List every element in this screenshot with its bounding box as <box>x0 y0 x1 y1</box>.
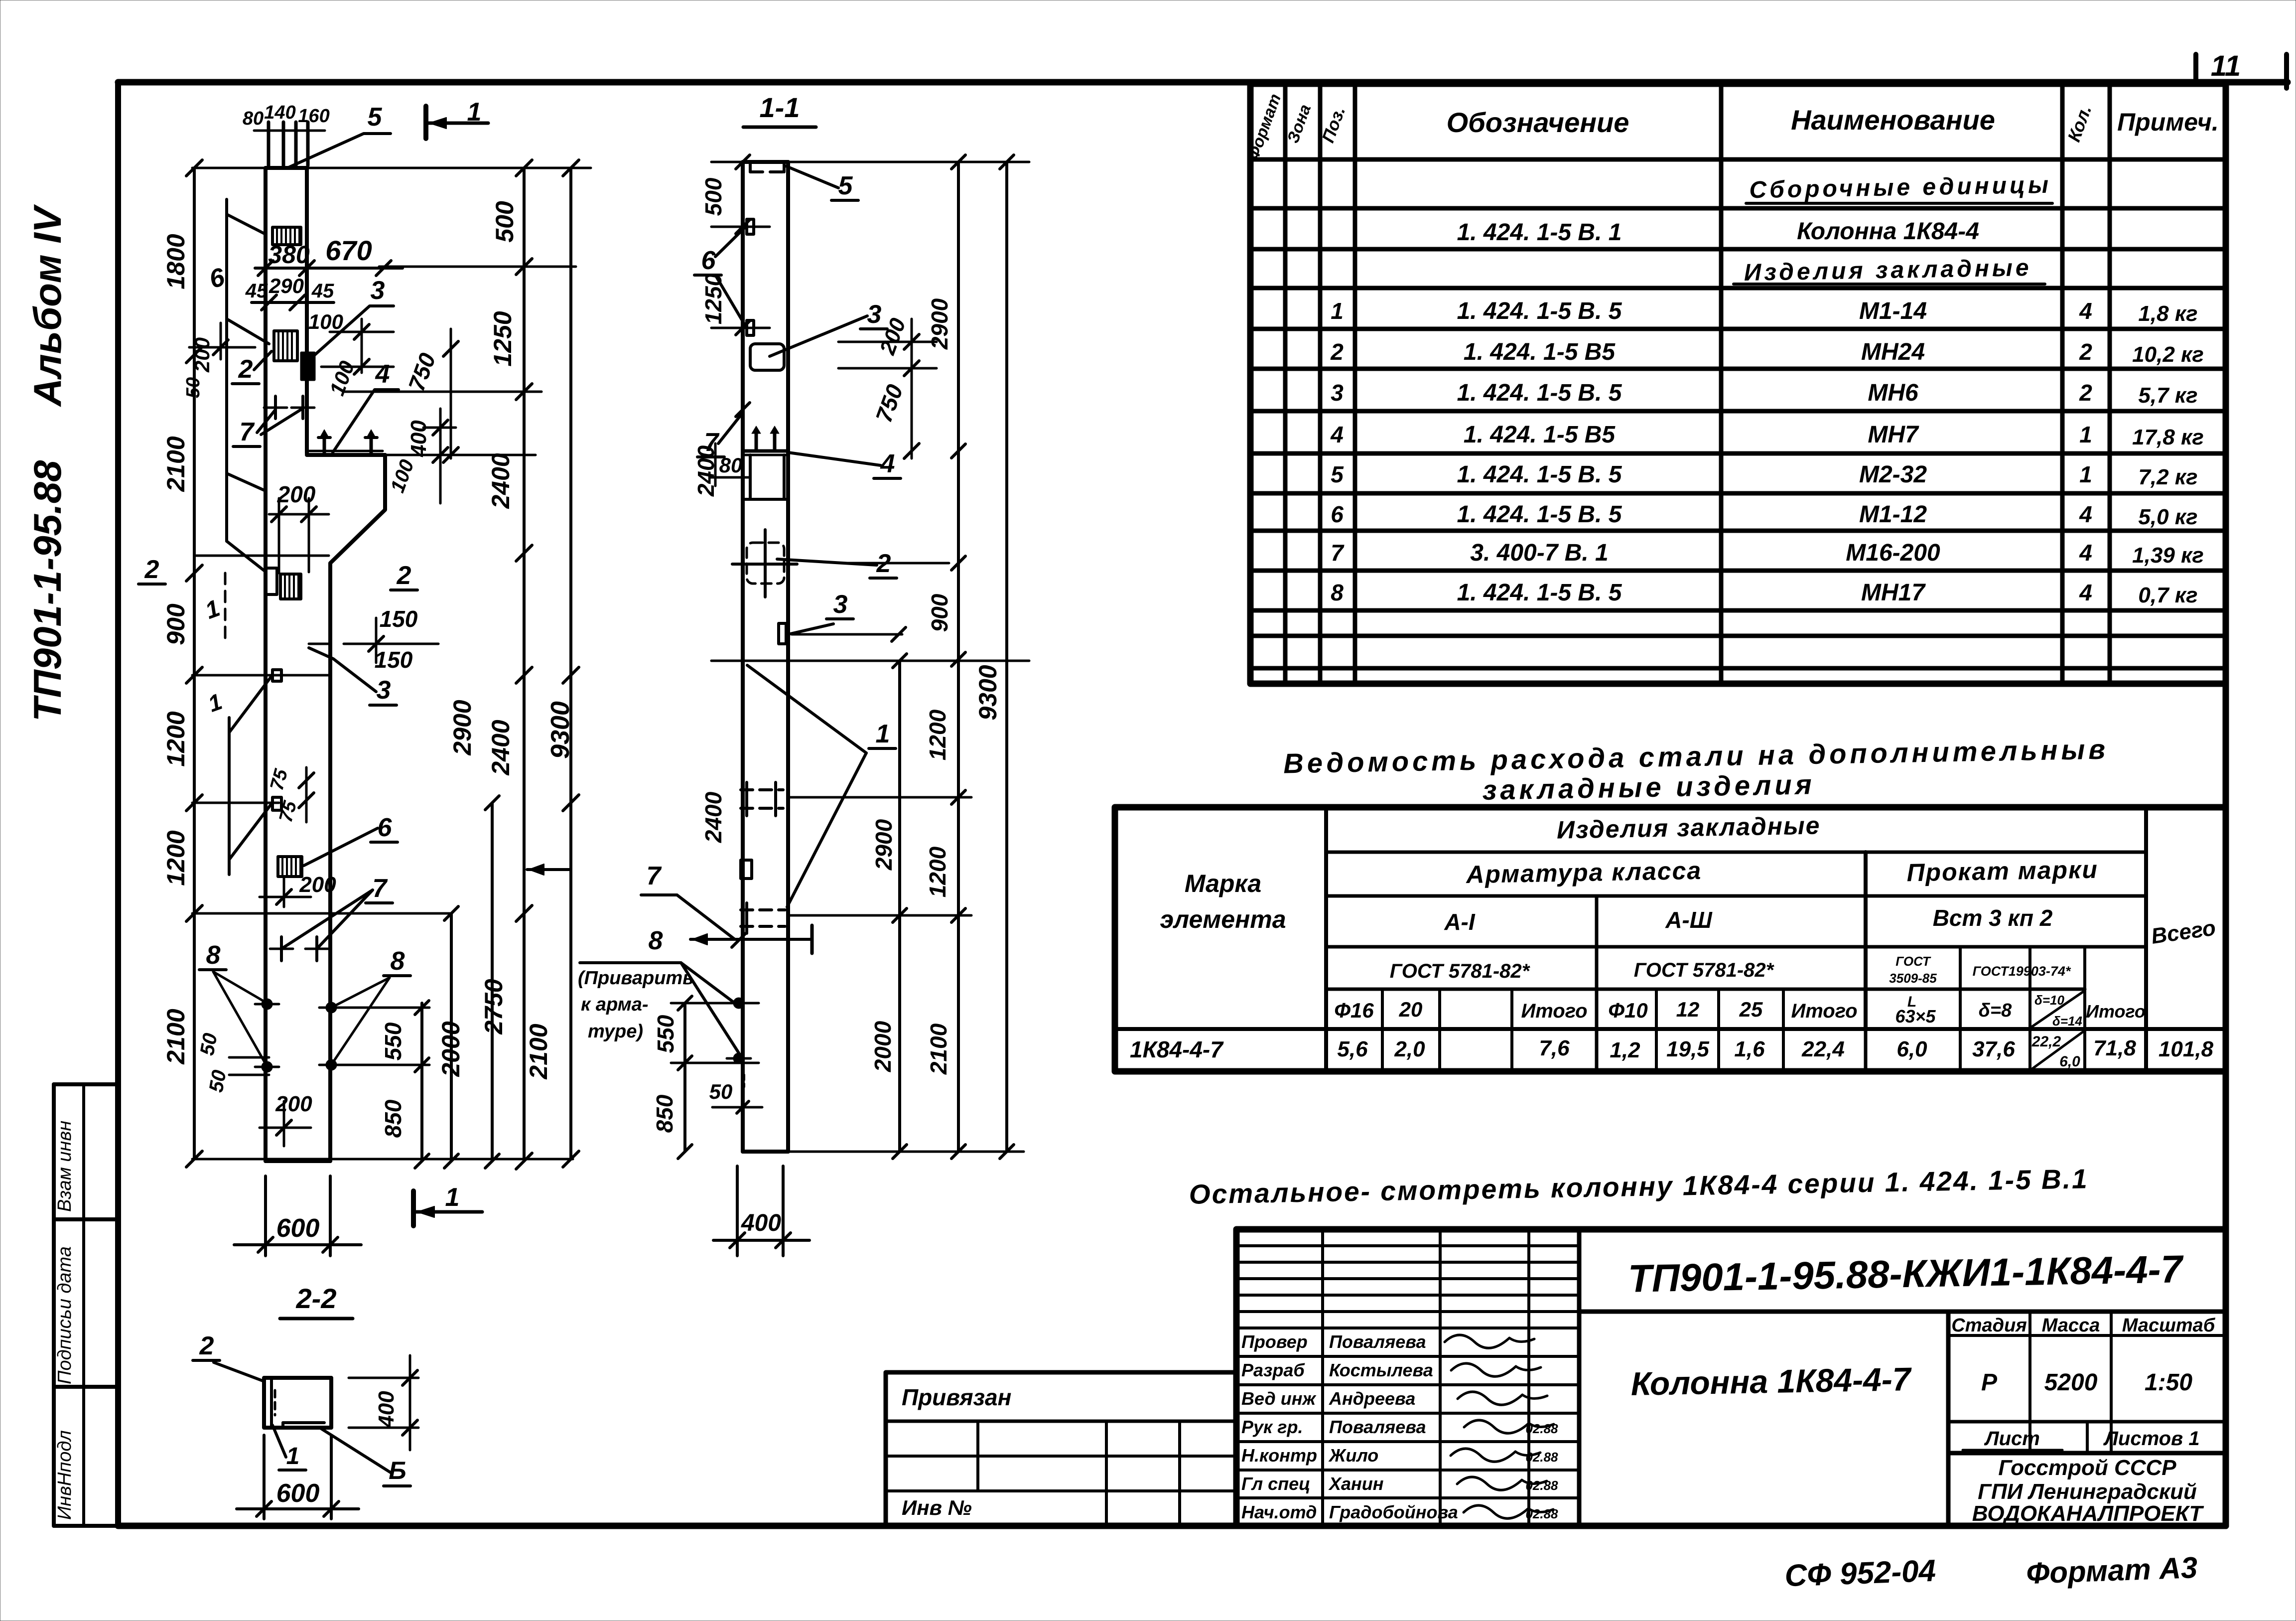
svg-text:Инв №: Инв № <box>902 1496 972 1519</box>
svg-text:Колонна 1К84-4-7: Колонна 1К84-4-7 <box>1630 1360 1912 1402</box>
view B column outline <box>743 162 788 1152</box>
svg-text:500: 500 <box>491 201 519 243</box>
svg-text:1800: 1800 <box>162 234 190 289</box>
title block stage mass scale <box>1951 1315 2216 1396</box>
attachment box <box>886 1372 1236 1525</box>
label 3 with leader view A <box>310 276 394 359</box>
dimension 50 50 rotated view A <box>196 1032 269 1094</box>
specification table row embedded items <box>1734 255 2045 286</box>
specification table row pos 1 М1-14 <box>1331 298 2197 326</box>
svg-text:А-I: А-I <box>1444 909 1476 935</box>
svg-text:Гл спец: Гл спец <box>1241 1474 1310 1494</box>
dimension 200 50 left <box>183 323 255 398</box>
svg-text:1К84-4-7: 1К84-4-7 <box>1130 1036 1224 1062</box>
svg-text:3: 3 <box>867 300 882 329</box>
svg-text:Вед инж: Вед инж <box>1241 1388 1317 1409</box>
dimension 200 below plate 6 <box>260 873 336 907</box>
svg-text:80: 80 <box>719 453 743 477</box>
svg-text:850: 850 <box>652 1094 677 1133</box>
small arrow mark on chain <box>527 864 571 875</box>
svg-text:М2-32: М2-32 <box>1859 461 1927 488</box>
view B cross embed pos2 <box>732 530 797 597</box>
title block name text <box>1630 1360 1912 1402</box>
format A3 bottom <box>2026 1551 2198 1590</box>
label 6 view A upper <box>206 263 228 295</box>
svg-text:7: 7 <box>240 418 255 446</box>
view B chain ticks left 500 1250 <box>711 155 770 335</box>
svg-text:900: 900 <box>927 593 952 632</box>
svg-text:Арматура класса: Арматура класса <box>1465 857 1702 888</box>
right dimension chain R1 view A <box>516 160 532 1169</box>
svg-text:δ=14: δ=14 <box>2052 1014 2083 1029</box>
svg-text:1,6: 1,6 <box>1734 1037 1765 1061</box>
svg-text:45: 45 <box>311 280 334 302</box>
svg-text:50: 50 <box>196 1032 222 1057</box>
svg-text:3: 3 <box>833 590 848 619</box>
svg-text:50: 50 <box>709 1080 733 1103</box>
svg-text:1200: 1200 <box>925 709 950 760</box>
svg-text:1. 424. 1-5 В. 1: 1. 424. 1-5 В. 1 <box>1457 219 1622 246</box>
title block signatures squiggles <box>1445 1335 1558 1521</box>
dimension 380 670 <box>255 235 403 276</box>
view B right chain labels <box>870 298 1002 1075</box>
svg-text:7,2 кг: 7,2 кг <box>2138 465 2197 489</box>
svg-text:Марка: Марка <box>1185 870 1261 897</box>
svg-text:100: 100 <box>308 310 343 333</box>
svg-text:7: 7 <box>647 862 662 890</box>
svg-text:12: 12 <box>1676 998 1700 1021</box>
dimension 150 150 view A <box>309 606 438 673</box>
svg-text:7: 7 <box>373 874 388 903</box>
label 2 view A <box>232 351 271 384</box>
specification table row pos 6 М1-12 <box>1331 501 2197 529</box>
sub chain 550 850 view A <box>380 796 499 1168</box>
view A embed plate pos5 top <box>272 227 301 245</box>
view B level line 2-2 <box>842 562 949 565</box>
svg-text:1:50: 1:50 <box>2145 1369 2192 1396</box>
dimension 600 below view A <box>234 1176 361 1256</box>
svg-text:3: 3 <box>1331 380 1344 406</box>
svg-text:2400: 2400 <box>700 791 726 843</box>
title block organization <box>1972 1456 2204 1526</box>
specification table row pos 4 МН7 <box>1330 422 2204 449</box>
view A small plates left edge <box>272 670 281 810</box>
svg-text:1: 1 <box>876 720 890 748</box>
svg-text:400: 400 <box>741 1210 781 1236</box>
note weld to reinforcement <box>578 968 694 1042</box>
svg-text:2: 2 <box>2079 380 2092 406</box>
label 5 with leader view A <box>287 103 391 168</box>
specification table row pos 2 МН24 <box>1330 339 2204 367</box>
svg-text:ВОДОКАНАЛПРОЕКТ: ВОДОКАНАЛПРОЕКТ <box>1972 1501 2204 1526</box>
dimension 200 750 view B <box>838 315 937 458</box>
view B top embed dashed <box>750 162 784 172</box>
svg-text:Колонна 1К84-4: Колонна 1К84-4 <box>1797 218 1979 245</box>
steel table grid <box>1115 807 2226 1071</box>
steel table data row <box>1130 1031 2214 1070</box>
svg-text:Провер: Провер <box>1241 1331 1308 1352</box>
steel table header texts <box>1160 811 2217 986</box>
svg-text:7: 7 <box>1331 540 1345 566</box>
svg-text:элемента: элемента <box>1160 905 1286 933</box>
view A column outline <box>266 168 385 1161</box>
svg-text:5,6: 5,6 <box>1337 1037 1368 1061</box>
attachment box texts <box>902 1384 1011 1519</box>
view B level lines right <box>711 162 1029 1152</box>
svg-text:ТП901-1-95.88 Альбом IV: ТП901-1-95.88 Альбом IV <box>25 204 69 722</box>
view B dashed embed plates lower <box>741 782 785 933</box>
label 7 with leaders view A lower <box>270 874 393 961</box>
svg-text:0,7 кг: 0,7 кг <box>2138 583 2197 607</box>
svg-text:3: 3 <box>377 676 391 705</box>
svg-text:19,5: 19,5 <box>1666 1037 1709 1061</box>
view B console bolts <box>743 426 788 455</box>
left stamp boxes <box>54 1084 118 1526</box>
svg-text:80: 80 <box>243 108 264 129</box>
svg-text:1: 1 <box>286 1443 300 1470</box>
svg-text:6,0: 6,0 <box>1896 1037 1927 1061</box>
svg-text:Изделия закладные: Изделия закладные <box>1744 255 2032 286</box>
label 7 with leader view B lower <box>641 862 746 947</box>
steel table title line 1 <box>1283 734 2109 779</box>
svg-text:2100: 2100 <box>162 1009 190 1064</box>
svg-text:4: 4 <box>2079 501 2092 527</box>
svg-text:2900: 2900 <box>927 298 952 350</box>
label 2 with leader view B <box>777 549 897 578</box>
specification table grid <box>1250 84 2226 684</box>
svg-text:ГОСТ 5781-82*: ГОСТ 5781-82* <box>1390 960 1531 982</box>
svg-text:850: 850 <box>380 1099 406 1138</box>
svg-text:11: 11 <box>2211 50 2241 82</box>
svg-text:Изделия закладные: Изделия закладные <box>1556 811 1820 844</box>
label 6 with leader section 2-2 <box>319 1427 410 1486</box>
specification table row pos 3 МН6 <box>1331 380 2197 408</box>
leader line for plates 6 and 2 <box>227 199 269 572</box>
svg-text:2100: 2100 <box>926 1023 951 1075</box>
svg-text:5200: 5200 <box>2044 1369 2098 1396</box>
svg-text:2: 2 <box>397 561 411 590</box>
svg-text:ГОСТ19903-74*: ГОСТ19903-74* <box>1973 964 2071 979</box>
svg-text:(Приварить: (Приварить <box>578 968 694 989</box>
svg-text:150: 150 <box>375 647 413 673</box>
label 1 with leaders view B <box>747 665 896 907</box>
dimension 400 below view B <box>713 1166 810 1256</box>
left chain labels 1800 2100 900 1200 1200 2100 <box>162 234 190 1064</box>
svg-text:600: 600 <box>276 1479 320 1508</box>
label 7 with leaders view A upper <box>233 396 314 446</box>
svg-text:МН17: МН17 <box>1861 580 1926 606</box>
svg-text:4: 4 <box>1330 422 1344 447</box>
svg-text:Нач.отд: Нач.отд <box>1241 1502 1317 1522</box>
svg-text:4: 4 <box>2079 540 2092 566</box>
svg-text:4: 4 <box>2079 298 2092 324</box>
svg-text:1200: 1200 <box>925 846 950 897</box>
svg-text:6,0: 6,0 <box>2059 1053 2080 1070</box>
embed plate pos3 on right edge <box>301 353 314 380</box>
svg-text:6: 6 <box>1331 501 1344 527</box>
svg-text:М1-12: М1-12 <box>1859 501 1927 528</box>
svg-text:17,8 кг: 17,8 кг <box>2132 425 2204 449</box>
svg-text:550: 550 <box>380 1022 406 1060</box>
section title 2-2 <box>280 1283 353 1319</box>
label 3 with leader view B lower <box>788 590 853 634</box>
svg-text:МН24: МН24 <box>1861 339 1925 365</box>
steel table title line 2 <box>1482 768 1815 806</box>
svg-text:1: 1 <box>2079 422 2092 447</box>
specification table header texts <box>1243 91 2219 162</box>
view A embed plate pos6 <box>278 857 302 877</box>
svg-text:М1-14: М1-14 <box>1859 298 1927 324</box>
svg-text:1. 424. 1-5 В. 5: 1. 424. 1-5 В. 5 <box>1457 580 1622 606</box>
view A level lines <box>189 168 591 1159</box>
svg-text:Листов 1: Листов 1 <box>2103 1428 2199 1450</box>
svg-text:45: 45 <box>245 280 268 302</box>
svg-text:Ханин: Ханин <box>1328 1474 1384 1494</box>
svg-text:150: 150 <box>380 606 418 632</box>
svg-text:500: 500 <box>700 177 726 216</box>
specification table row assembly units <box>1746 172 2052 204</box>
label 5 with leader view B <box>786 166 858 200</box>
svg-text:Рук гр.: Рук гр. <box>1241 1417 1303 1437</box>
view B left chain labels 500 1250 2400 2400 <box>693 177 726 843</box>
svg-text:3. 400-7 В. 1: 3. 400-7 В. 1 <box>1470 540 1609 566</box>
svg-text:1: 1 <box>2079 461 2092 487</box>
title block signature rows <box>1241 1331 1458 1522</box>
label 3 with leader view A mid <box>309 648 397 705</box>
svg-text:Масштаб: Масштаб <box>2122 1315 2216 1336</box>
label 1 with leader section 2-2 <box>272 1425 306 1470</box>
view A embed plates at 2-2 level <box>266 568 301 599</box>
svg-text:δ=10: δ=10 <box>2034 993 2065 1008</box>
svg-text:50: 50 <box>205 1068 231 1094</box>
view B small plates left edge <box>747 219 754 335</box>
svg-text:22,2: 22,2 <box>2031 1033 2061 1050</box>
svg-text:1200: 1200 <box>162 830 190 885</box>
view A console anchor bolts <box>318 430 377 453</box>
svg-text:37,6: 37,6 <box>1972 1037 2015 1061</box>
svg-text:Стадия: Стадия <box>1951 1315 2026 1336</box>
svg-text:1. 424. 1-5 В. 5: 1. 424. 1-5 В. 5 <box>1457 461 1622 488</box>
svg-text:900: 900 <box>162 603 190 645</box>
svg-text:02.88: 02.88 <box>1525 1421 1558 1436</box>
svg-text:2,0: 2,0 <box>1394 1037 1425 1061</box>
svg-text:4: 4 <box>880 449 895 478</box>
svg-text:1,2: 1,2 <box>1610 1038 1640 1062</box>
svg-text:Наименование: Наименование <box>1791 104 1995 136</box>
svg-text:МН6: МН6 <box>1868 380 1918 406</box>
svg-text:Подписьи дата: Подписьи дата <box>54 1246 75 1384</box>
note rest see column text <box>1189 1163 2089 1210</box>
svg-text:2: 2 <box>199 1331 214 1360</box>
svg-text:Н.контр: Н.контр <box>1241 1445 1317 1466</box>
dimension 200 bottom view A <box>260 1092 312 1146</box>
svg-text:2400: 2400 <box>487 720 515 775</box>
svg-text:Привязан: Привязан <box>902 1384 1011 1410</box>
svg-text:Прокат марки: Прокат марки <box>1906 856 2098 887</box>
label 3 with leader view B <box>770 300 887 356</box>
svg-text:А-Ш: А-Ш <box>1665 907 1713 933</box>
svg-text:Поваляева: Поваляева <box>1329 1417 1426 1437</box>
left dimension chain line view A <box>186 160 202 1167</box>
svg-text:4: 4 <box>375 360 390 389</box>
svg-text:2: 2 <box>238 355 253 384</box>
dimension 80 140 160 top <box>243 102 330 129</box>
svg-text:7,6: 7,6 <box>1539 1036 1570 1060</box>
svg-text:Госстрой СССР: Госстрой СССР <box>1998 1456 2176 1480</box>
label 2 with leader section 2-2 <box>193 1331 264 1381</box>
svg-text:101,8: 101,8 <box>2159 1037 2214 1061</box>
view B bottom arrow mark <box>690 925 812 953</box>
view B embed plate pos3 rounded <box>750 344 784 370</box>
label 7 with leader view B <box>697 403 750 457</box>
svg-text:400: 400 <box>406 420 431 457</box>
svg-text:закладные изделия: закладные изделия <box>1482 768 1815 806</box>
svg-text:63×5: 63×5 <box>1895 1006 1936 1027</box>
svg-text:140: 140 <box>264 102 295 123</box>
svg-text:25: 25 <box>1739 998 1763 1021</box>
svg-text:2: 2 <box>1330 339 1344 365</box>
svg-text:8: 8 <box>649 926 663 955</box>
svg-text:Ф16: Ф16 <box>1334 999 1374 1022</box>
view A embed plate pos2 <box>274 331 297 361</box>
svg-text:1,39 кг: 1,39 кг <box>2132 543 2204 568</box>
view B console pocket <box>743 455 788 499</box>
svg-text:160: 160 <box>298 106 329 127</box>
svg-text:5: 5 <box>368 103 383 132</box>
svg-text:2000: 2000 <box>870 1021 896 1072</box>
svg-text:600: 600 <box>276 1214 320 1243</box>
svg-text:Ф10: Ф10 <box>1608 999 1648 1022</box>
dimension 400 100 console right <box>387 409 456 503</box>
view B right chains <box>893 155 1014 1159</box>
view A top anchor bolts <box>254 122 325 165</box>
svg-text:ИнвНподл: ИнвНподл <box>54 1430 75 1520</box>
svg-text:1250: 1250 <box>700 273 726 324</box>
specification table row pos 5 М2-32 <box>1331 461 2197 489</box>
chain labels 2900 9300 2100 2000 <box>437 700 575 1079</box>
svg-text:Вст 3 кп 2: Вст 3 кп 2 <box>1933 905 2053 931</box>
specification table row pos 8 МН17 <box>1331 580 2197 607</box>
view A anchor bolts lower <box>255 999 343 1072</box>
svg-text:туре): туре) <box>588 1021 643 1042</box>
svg-text:71,8: 71,8 <box>2093 1036 2136 1060</box>
svg-text:6: 6 <box>378 813 393 842</box>
svg-text:Б: Б <box>389 1457 406 1484</box>
svg-text:290: 290 <box>269 274 304 297</box>
svg-text:1. 424. 1-5 В. 5: 1. 424. 1-5 В. 5 <box>1457 298 1622 324</box>
svg-text:δ=8: δ=8 <box>1979 1000 2012 1021</box>
section mark 1 top <box>426 98 488 139</box>
label 8 with leaders view A right <box>331 947 410 1065</box>
svg-text:Масса: Масса <box>2042 1315 2100 1336</box>
svg-text:22,4: 22,4 <box>1801 1037 1845 1061</box>
svg-text:8: 8 <box>206 941 221 970</box>
svg-text:М16-200: М16-200 <box>1846 540 1940 566</box>
svg-text:02.88: 02.88 <box>1525 1478 1558 1493</box>
svg-text:2: 2 <box>2079 339 2092 365</box>
label 4 with leader view A <box>333 360 399 452</box>
dimension 400 section 2-2 <box>349 1355 418 1450</box>
dimension 550 850 50 view B <box>652 996 762 1159</box>
svg-text:670: 670 <box>325 235 372 266</box>
svg-text:6: 6 <box>701 246 716 275</box>
vertical document code text TP901-1-95.88 Album IV <box>25 204 69 722</box>
svg-text:Костылева: Костылева <box>1329 1360 1433 1380</box>
svg-text:Сборочные единицы: Сборочные единицы <box>1749 172 2051 204</box>
svg-text:к арма-: к арма- <box>581 994 649 1015</box>
svg-text:СФ 952-04: СФ 952-04 <box>1784 1554 1936 1594</box>
leader lines lower plates view A <box>205 676 271 875</box>
svg-text:2400: 2400 <box>487 453 515 509</box>
label 1 rotated view A <box>202 595 223 624</box>
view B level line mid <box>711 627 1029 661</box>
svg-text:ГОСТ 5781-82*: ГОСТ 5781-82* <box>1634 959 1775 981</box>
stamp code bottom <box>1784 1554 1936 1594</box>
svg-text:1250: 1250 <box>489 311 517 366</box>
svg-text:200: 200 <box>299 873 336 897</box>
svg-text:02.88: 02.88 <box>1525 1506 1558 1521</box>
svg-text:Р: Р <box>1981 1369 1998 1396</box>
label 6 with leaders view B <box>694 227 746 326</box>
section 2-2 outline <box>264 1378 331 1428</box>
dimension 600 section 2-2 <box>237 1435 359 1519</box>
svg-text:2100: 2100 <box>162 436 190 492</box>
label 8 with leaders view B <box>580 926 739 1053</box>
svg-text:Итого: Итого <box>2086 1001 2146 1022</box>
svg-text:3: 3 <box>371 276 385 305</box>
title block designation text <box>1627 1247 2184 1300</box>
svg-text:2100: 2100 <box>525 1024 552 1079</box>
chain R1 labels 500 1250 2400 2400 2750 <box>480 201 519 1035</box>
svg-text:1: 1 <box>1331 298 1344 324</box>
svg-text:02.88: 02.88 <box>1525 1450 1558 1465</box>
svg-text:1. 424. 1-5 В. 5: 1. 424. 1-5 В. 5 <box>1457 501 1622 528</box>
dimension 45 290 45 <box>245 274 334 310</box>
view A hidden edge dashed <box>224 573 227 640</box>
svg-text:Разраб: Разраб <box>1241 1360 1305 1380</box>
sheet number 11 box <box>2196 50 2287 88</box>
dimension 75 75 rotated <box>267 766 314 825</box>
svg-text:Градобойнова: Градобойнова <box>1329 1502 1458 1522</box>
svg-text:1. 424. 1-5 В. 5: 1. 424. 1-5 В. 5 <box>1457 380 1622 406</box>
specification table row column 1K84-4 <box>1457 218 1979 246</box>
svg-text:Итого: Итого <box>1791 1000 1857 1022</box>
svg-text:1: 1 <box>445 1183 460 1212</box>
view B plate right edge <box>779 623 786 644</box>
specification table row pos 7 М16-200 <box>1331 540 2204 568</box>
svg-text:1-1: 1-1 <box>760 92 800 123</box>
svg-text:8: 8 <box>391 947 405 976</box>
svg-text:1. 424. 1-5 В5: 1. 424. 1-5 В5 <box>1464 422 1616 448</box>
dimension 100 rotated right <box>325 358 359 399</box>
svg-text:5: 5 <box>838 171 853 200</box>
svg-text:2900: 2900 <box>448 700 476 755</box>
svg-text:Обозначение: Обозначение <box>1447 107 1629 138</box>
svg-text:1200: 1200 <box>162 711 190 766</box>
steel table subheader row <box>1334 991 2146 1029</box>
svg-text:5: 5 <box>1331 461 1344 487</box>
svg-text:8: 8 <box>1331 580 1344 605</box>
svg-text:МН7: МН7 <box>1868 422 1919 448</box>
view A section 2-2 cut line <box>138 555 417 590</box>
section mark 1 bottom <box>413 1183 482 1226</box>
label 6 with leader view A lower <box>304 813 398 866</box>
svg-text:Поваляева: Поваляева <box>1329 1331 1426 1352</box>
view B lower bolts <box>727 998 751 1087</box>
label 8 with leaders view A left <box>199 941 267 1066</box>
svg-text:10,2 кг: 10,2 кг <box>2132 342 2204 367</box>
svg-text:Примеч.: Примеч. <box>2117 108 2219 136</box>
